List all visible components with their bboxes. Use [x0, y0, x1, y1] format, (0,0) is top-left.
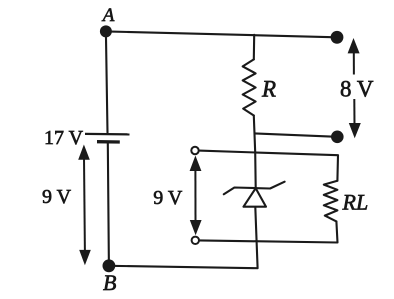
- node B: [103, 259, 116, 272]
- zener diode anode triangle: [244, 188, 267, 207]
- node dot middle right: [331, 131, 344, 144]
- top rail from left circle to RL corner: [199, 151, 338, 181]
- wire battery to node B: [108, 142, 109, 266]
- resistor R zigzag: [243, 59, 256, 115]
- svg-text:9 V: 9 V: [153, 187, 183, 209]
- resistor R bottom lead through junction to top rail crossing: [254, 116, 255, 153]
- wire node B to bottom corner and up to zener anode: [109, 207, 258, 268]
- wire A down to battery top: [106, 31, 108, 132]
- svg-text:17 V: 17 V: [44, 127, 84, 149]
- 9V arrow left (double headed): [78, 145, 91, 266]
- node A: [100, 25, 112, 37]
- svg-text:R: R: [261, 77, 276, 102]
- node dot top right: [331, 31, 344, 44]
- resistor R top lead: [253, 35, 255, 60]
- 8V arrow up (top): [348, 38, 360, 75]
- svg-text:RL: RL: [342, 189, 369, 214]
- wire top rail A to right dot: [106, 31, 337, 37]
- svg-text:8 V: 8 V: [340, 77, 374, 102]
- wire junction to middle right dot: [255, 133, 338, 136]
- svg-text:9 V: 9 V: [42, 186, 72, 208]
- battery 17V short plate: [97, 140, 120, 144]
- 8V arrow down (bottom): [349, 99, 361, 138]
- svg-text:B: B: [103, 270, 116, 295]
- RL bottom lead to bottom rail corner: [199, 221, 338, 242]
- 9V arrow middle (double headed): [190, 156, 202, 236]
- wire zener cathode lead: [254, 152, 257, 188]
- open terminal circle top: [191, 147, 198, 154]
- svg-text:A: A: [101, 5, 115, 26]
- battery 17V long plate: [85, 133, 130, 136]
- zener diode cathode bar with bent ends: [224, 182, 285, 195]
- resistor RL zigzag: [324, 181, 338, 222]
- open terminal circle bottom: [192, 237, 199, 244]
